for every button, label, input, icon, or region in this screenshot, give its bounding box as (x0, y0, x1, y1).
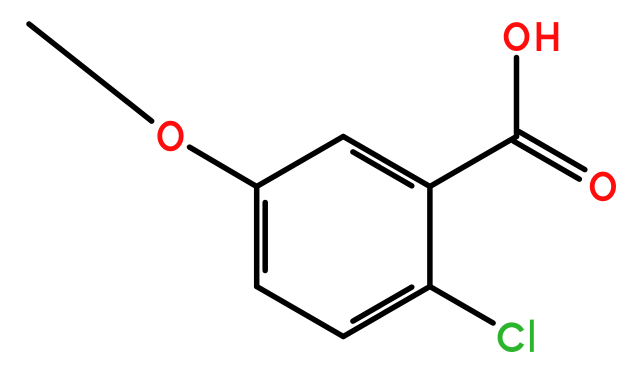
wire methyl CH3-O bond (29, 24, 152, 121)
wire ring bond C4-C5 (254, 187, 260, 287)
wire bond carboxyl C=O line 2 (519, 132, 585, 170)
wire ring bond C5-C6 (257, 137, 344, 187)
wire ring bond C2-C3 (343, 287, 430, 337)
wire ring bond C1-C2 (427, 187, 433, 287)
wire bond C1 to carboxyl carbon (430, 137, 517, 187)
node Cl chlorine label (500, 320, 532, 352)
node O methoxy oxygen label (160, 123, 181, 149)
wire O-C5 ether bond (190, 147, 257, 186)
node O carbonyl oxygen label (592, 174, 613, 199)
wire bond carboxyl C=O line 1 (514, 141, 580, 179)
wire ring bond C4=C5 inner double line (262, 203, 268, 271)
wire ring bond C3-C4 (257, 287, 344, 337)
wire ring bond C6-C1 (343, 137, 430, 187)
node O hydroxyl OH label (506, 22, 556, 51)
wire ring bond C6=C1 inner double line (353, 152, 412, 186)
wire bond carboxyl C-OH (514, 58, 520, 137)
wire ring bond C2=C3 inner double line (353, 287, 412, 321)
wire bond C2-Cl (430, 287, 493, 324)
